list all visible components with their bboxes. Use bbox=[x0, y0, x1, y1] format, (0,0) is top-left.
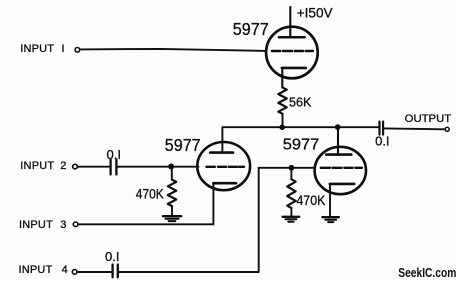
label V1 5977 bbox=[233, 19, 269, 39]
capacitor C1 0.1 bbox=[111, 160, 117, 175]
wire plate bus bbox=[222, 127, 378, 152]
wire V3 plate to bus bbox=[337, 127, 339, 154]
svg-text:3: 3 bbox=[60, 219, 66, 231]
svg-text:5977: 5977 bbox=[283, 137, 320, 154]
capacitor C4 0.1 (output) bbox=[380, 122, 384, 135]
svg-text:SeekIC.com: SeekIC.com bbox=[398, 266, 456, 280]
wire C3 to V3 grid bbox=[119, 168, 315, 272]
wire R3 to ground bbox=[290, 208, 292, 216]
wire V1 cathode down to R1 bbox=[281, 68, 283, 88]
ground G3 bbox=[322, 216, 338, 218]
wire V2 cathode down to input3 bbox=[212, 183, 214, 224]
ground G2 bbox=[283, 216, 300, 218]
svg-text:INPUT: INPUT bbox=[20, 160, 54, 172]
label C1 0.1 bbox=[107, 147, 121, 162]
V2 cathode bbox=[213, 182, 236, 185]
label INPUT 2 bbox=[20, 160, 66, 172]
svg-text:470K: 470K bbox=[136, 186, 164, 202]
terminal input 4 bbox=[72, 270, 77, 275]
svg-text:0.I: 0.I bbox=[105, 249, 119, 264]
wire C1 to V2 grid bbox=[118, 166, 199, 168]
terminal input 2 bbox=[73, 164, 78, 169]
label C4 0.1 bbox=[375, 134, 389, 149]
resistor R2 470K bbox=[171, 167, 173, 180]
tube V3 5977 envelope bbox=[315, 147, 366, 194]
node R3/V3 grid junction bbox=[289, 165, 295, 171]
wire input4 to C3 bbox=[77, 271, 111, 273]
resistor R1 56K bbox=[278, 88, 287, 114]
svg-text:0.I: 0.I bbox=[107, 147, 121, 162]
V1 grid (dashed) bbox=[272, 50, 313, 52]
label INPUT 1 bbox=[20, 43, 64, 55]
node bus/V3 plate junction bbox=[335, 124, 341, 130]
label INPUT 3 bbox=[19, 219, 66, 231]
svg-text:INPUT: INPUT bbox=[19, 219, 53, 231]
svg-text:470K: 470K bbox=[296, 192, 326, 208]
svg-text:INPUT: INPUT bbox=[19, 264, 53, 276]
node bus/R1 junction bbox=[279, 124, 285, 130]
svg-text:INPUT: INPUT bbox=[20, 43, 54, 55]
label INPUT 4 bbox=[19, 264, 68, 276]
V2 grid (dashed) bbox=[206, 166, 244, 168]
svg-text:+I50V: +I50V bbox=[297, 6, 333, 22]
V3 cathode bbox=[330, 183, 354, 186]
label +150V bbox=[297, 6, 333, 22]
node C1/R2 junction bbox=[168, 164, 174, 170]
tube V2 5977 envelope bbox=[197, 142, 250, 190]
svg-text:4: 4 bbox=[62, 264, 68, 276]
svg-text:56K: 56K bbox=[289, 94, 312, 109]
V1 plate bbox=[279, 36, 305, 39]
wire R2 to ground bbox=[171, 206, 173, 215]
V1 cathode bbox=[282, 67, 306, 70]
svg-text:5977: 5977 bbox=[165, 135, 201, 155]
label OUTPUT bbox=[405, 113, 452, 125]
label V2 5977 bbox=[165, 135, 201, 155]
wire C4 to output terminal bbox=[385, 127, 445, 130]
svg-text:2: 2 bbox=[60, 160, 66, 172]
+150V supply lead bbox=[289, 7, 291, 37]
terminal output bbox=[445, 127, 449, 131]
svg-text:I: I bbox=[62, 43, 65, 55]
wire V3 cathode to ground bbox=[329, 184, 331, 216]
label R1 56K bbox=[289, 94, 312, 109]
resistor R3 470K bbox=[290, 168, 292, 180]
label V3 5977 bbox=[283, 137, 320, 154]
wire input1 to V1 grid bbox=[80, 49, 266, 51]
terminal input 1 bbox=[75, 48, 80, 53]
label R3 470K bbox=[296, 192, 326, 208]
svg-text:OUTPUT: OUTPUT bbox=[405, 113, 452, 125]
label R2 470K bbox=[136, 186, 164, 202]
wire input3 to V2 cathode bbox=[78, 223, 213, 225]
wire input2 to C1 bbox=[78, 166, 110, 168]
svg-text:5977: 5977 bbox=[233, 19, 269, 39]
V2 plate bbox=[210, 151, 233, 154]
tube V1 5977 envelope bbox=[266, 27, 318, 79]
wire R1 to bus bbox=[282, 114, 284, 127]
V3 plate bbox=[326, 153, 351, 156]
terminal input 3 bbox=[73, 222, 78, 227]
svg-text:0.I: 0.I bbox=[375, 134, 389, 149]
V3 grid (dashed) bbox=[321, 167, 362, 169]
label C3 0.1 bbox=[105, 249, 119, 264]
ground G1 bbox=[163, 215, 181, 217]
capacitor C3 0.1 bbox=[113, 265, 118, 278]
